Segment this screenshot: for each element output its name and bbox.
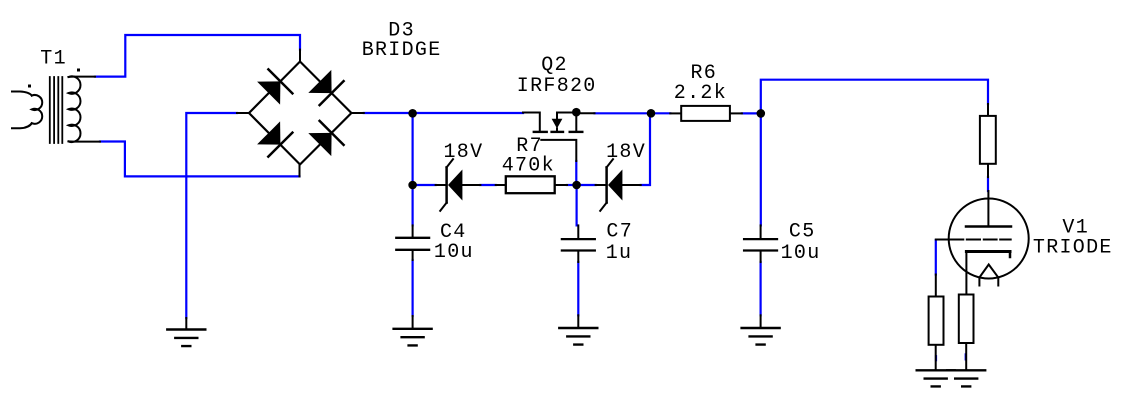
svg-text:10u: 10u (434, 241, 474, 264)
svg-text:470k: 470k (502, 155, 555, 178)
svg-text:IRF820: IRF820 (517, 75, 597, 98)
svg-text:BRIDGE: BRIDGE (362, 39, 442, 62)
svg-text:C5: C5 (789, 221, 816, 244)
svg-text:1u: 1u (606, 242, 633, 265)
svg-text:10u: 10u (781, 242, 821, 265)
svg-text:C7: C7 (606, 221, 633, 244)
svg-text:18V: 18V (606, 141, 646, 164)
svg-text:2.2k: 2.2k (674, 82, 727, 105)
svg-text:T1: T1 (40, 48, 67, 71)
svg-text:TRIODE: TRIODE (1033, 237, 1113, 260)
svg-text:18V: 18V (444, 141, 484, 164)
svg-text:Q2: Q2 (541, 54, 568, 77)
